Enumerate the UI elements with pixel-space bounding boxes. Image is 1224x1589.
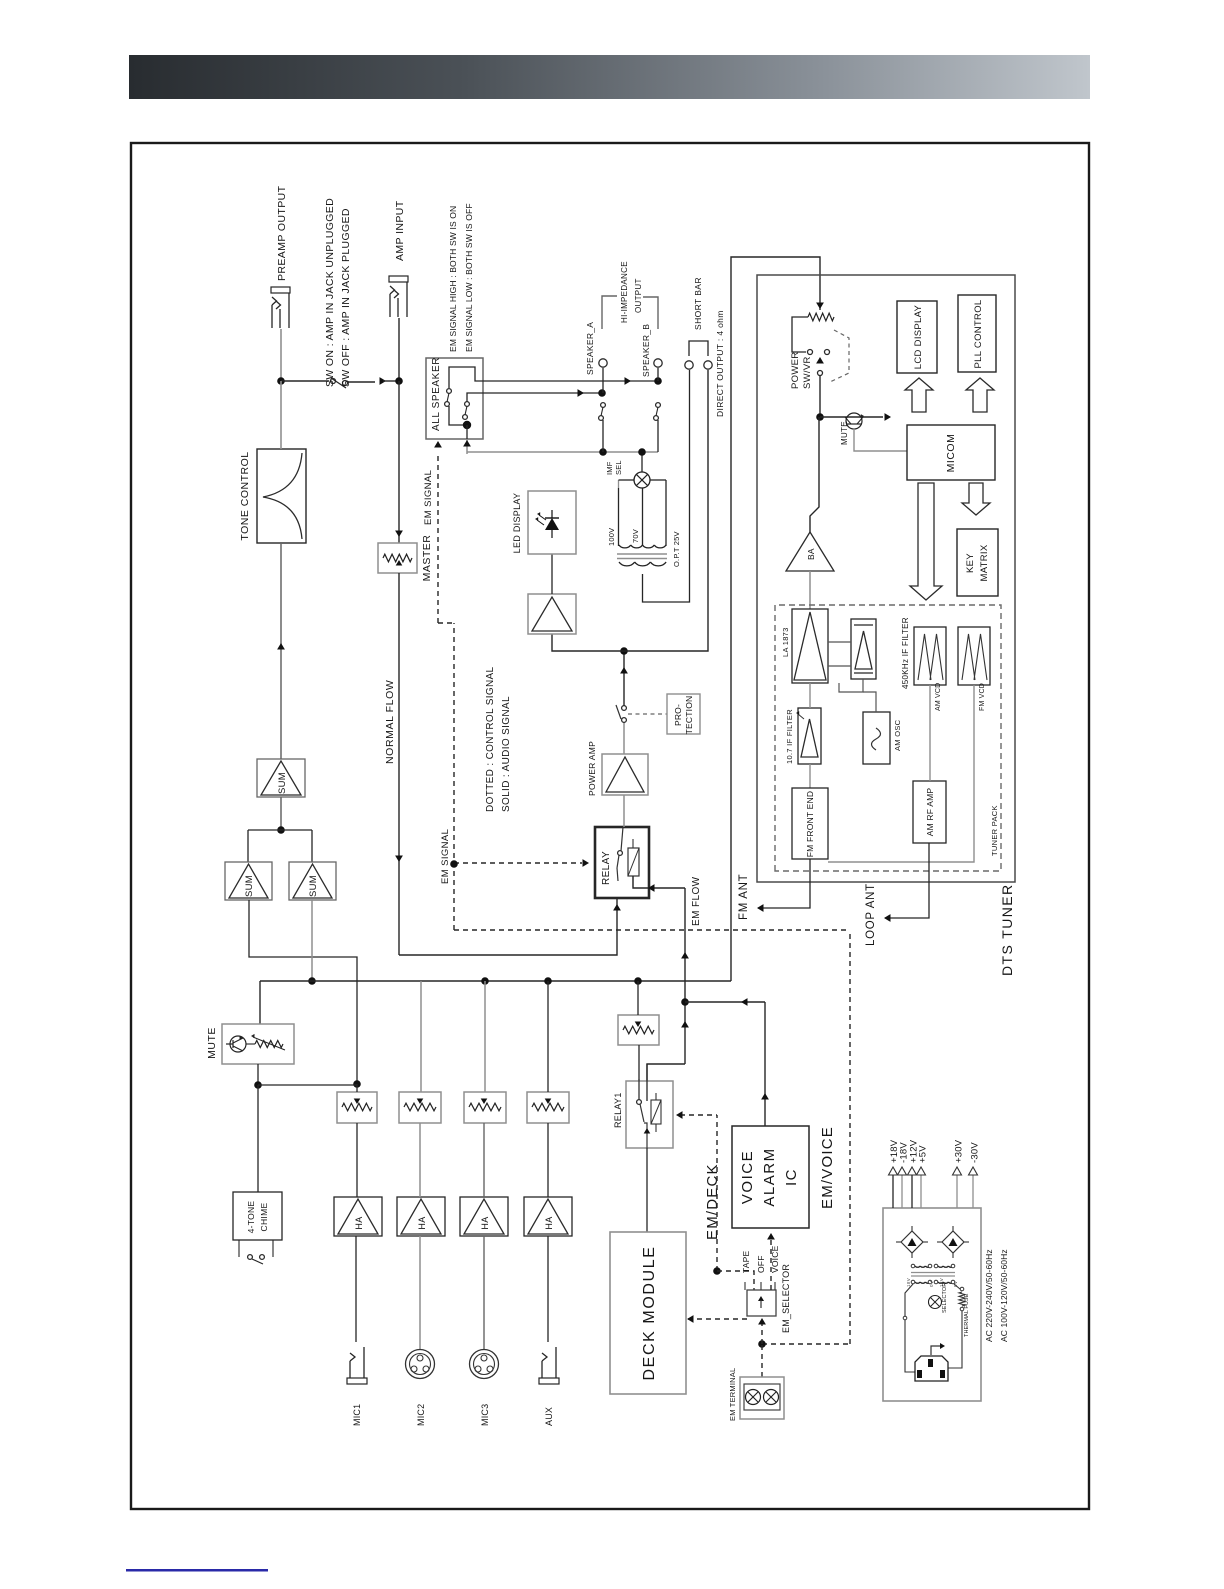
selector lamp [929,1296,942,1309]
node mic1 junction [353,1080,361,1088]
wire relay-poweramp [623,795,625,827]
svg-text:ALARM: ALARM [761,1147,778,1206]
LA-filter links [828,665,851,667]
svg-text:MIC2: MIC2 [416,1404,426,1426]
node bus sum3 [308,977,316,985]
wire SUM3 from bus [311,900,313,981]
XLR MIC2 [406,1350,435,1379]
jack J2 AMP INPUT [389,294,391,317]
wire to MASTER [398,381,400,543]
svg-text:PRO-: PRO- [673,704,683,726]
jack AUX [541,1361,543,1378]
svg-text:PLL CONTROL: PLL CONTROL [973,300,984,369]
KEY MATRIX box [957,529,998,596]
node dashed selector [713,1267,721,1275]
wire mute out [257,1064,259,1085]
bus node pot5 [634,977,642,985]
DECK MODULE box [610,1232,686,1394]
SUM3 box [289,862,336,900]
VOICE ALARM IC box [732,1126,809,1228]
svg-text:EM/VOICE: EM/VOICE [819,1126,836,1209]
svg-text:RELAY: RELAY [601,851,612,885]
POWER AMP box [602,754,648,795]
svg-text:100V: 100V [607,528,616,546]
svg-text:SHORT BAR: SHORT BAR [693,277,703,330]
wire HA2-pot2 [419,1123,421,1197]
ALL SPEAKER box [426,358,483,439]
protection switch [622,718,627,723]
psu wiring right [948,1311,962,1368]
OPT core [617,558,667,560]
svg-text:SUM: SUM [308,875,319,897]
psu out +18V [892,1175,894,1208]
svg-text:FM ANT: FM ANT [738,874,750,920]
FM VCD box [958,627,990,685]
relay1 feed inside [638,1079,640,1100]
wire SUM1-tone [280,543,282,759]
filter-osc link [839,679,863,692]
svg-text:MIC1: MIC1 [352,1404,362,1426]
arrow to tone [277,643,285,650]
POWER SUPPLY box [883,1208,981,1401]
svg-text:AC 220V-240V/50-60Hz: AC 220V-240V/50-60Hz [984,1249,994,1342]
svg-text:70V: 70V [631,529,640,543]
svg-text:MICOM: MICOM [945,434,957,473]
svg-text:SPEAKER_B: SPEAKER_B [641,324,651,377]
svg-text:SW ON : AMP IN JACK UNPLUGGED: SW ON : AMP IN JACK UNPLUGGED [324,198,336,387]
svg-text:HA: HA [544,1216,554,1229]
svg-text:VOICE: VOICE [739,1150,756,1204]
bridge rectifier 2 [942,1231,964,1253]
volume pot VR1 [337,1092,377,1123]
LA 1873 box [792,609,828,683]
bridge rectifier 1 [901,1231,923,1253]
psu transformer primary [915,1282,920,1283]
node return-IMF [638,448,646,456]
TONE CONTROL box [257,449,306,543]
svg-text:TAPE: TAPE [741,1250,751,1273]
svg-text:IC: IC [783,1168,800,1186]
svg-text:HA: HA [480,1216,490,1229]
svg-text:TUNER PACK: TUNER PACK [990,805,999,856]
wire pot4-bus [547,981,549,1092]
wire preamp jack lead [280,329,282,381]
svg-text:RELAY1: RELAY1 [613,1092,623,1128]
dashed protection link [628,713,667,715]
svg-text:SUM: SUM [244,875,255,897]
psu out -30V [972,1175,974,1208]
dashed pot-switch linkage [830,330,849,382]
selector ticks [744,1282,746,1290]
svg-text:OFF: OFF [756,1255,766,1273]
svg-text:PREAMP OUTPUT: PREAMP OUTPUT [276,185,288,281]
svg-text:FM FRONT END: FM FRONT END [805,791,815,857]
wire empot-relay1 [638,1045,640,1081]
em flow to relay coil [633,876,685,888]
jack MIC1 [349,1361,351,1378]
volume pot VR2 [399,1092,441,1123]
wire fmvcd-down [828,685,974,862]
jack J1 PREAMP OUTPUT [271,305,273,328]
FM ANT line [758,859,810,908]
wire HA1-pot1 [356,1123,358,1197]
svg-text:AUX: AUX [544,1407,554,1426]
svg-text:KEY: KEY [965,553,976,573]
arrow into relay [613,904,621,911]
70V tap [642,488,644,546]
wire relay1-deck [646,1148,648,1232]
svg-text:+5V: +5V [918,1145,929,1163]
wire pot1-junction [356,1084,358,1092]
node spkB [654,377,662,385]
XLR MIC3 [470,1350,499,1379]
LED driver box [528,594,576,634]
hi-impedance bracket B [643,297,658,329]
speaker return line [467,451,658,453]
EM FLOW line [684,888,686,1064]
short bar bracket [689,341,708,356]
plug arrow [931,1346,940,1355]
dashed into relay1 [680,1114,717,1116]
wire HA4-pot4 [547,1123,549,1197]
svg-text:LED DISPLAY: LED DISPLAY [512,493,522,554]
power switch [808,350,813,355]
svg-text:0V: 0V [929,1281,934,1287]
svg-text:POWER AMP: POWER AMP [587,741,597,796]
node allspeaker common [463,421,471,429]
svg-text:AM OSC: AM OSC [893,719,902,751]
wire switch-ampjack [398,318,400,381]
POWER SW/VR pot [808,313,834,321]
tuner mute transistor [820,416,883,418]
svg-text:AC 100V-120V/50-60Hz: AC 100V-120V/50-60Hz [999,1249,1009,1342]
HA2 box [397,1197,445,1236]
svg-text:MATRIX: MATRIX [979,544,990,581]
relay coil leads [632,876,634,887]
HA1 box [334,1197,382,1236]
wire lamp-return [641,452,643,472]
EM TERMINAL box [740,1377,784,1419]
RELAY box [595,827,649,898]
wire MIC3-HA3 [483,1236,485,1350]
svg-text:DIRECT OUTPUT : 4 ohm: DIRECT OUTPUT : 4 ohm [715,310,725,417]
svg-text:AMP INPUT: AMP INPUT [394,200,406,261]
dashed em trunk [454,929,850,931]
SUM2 box [225,862,272,900]
svg-text:CHIME: CHIME [259,1203,269,1232]
svg-text:EM/DECK: EM/DECK [704,1163,721,1240]
svg-text:OUTPUT: OUTPUT [634,278,643,313]
SHORT BAR terminals [685,361,693,369]
svg-text:SEL: SEL [614,460,623,475]
HA4 box [524,1197,572,1236]
OPT primary coil [619,545,631,548]
block arrow micom-lcd [905,378,933,412]
sum split branches [248,829,312,831]
psu out +5V [920,1175,922,1208]
svg-text:EM SIGNAL: EM SIGNAL [440,829,451,884]
relay1 NC wire [646,1064,648,1101]
svg-text:LCD DISPLAY: LCD DISPLAY [913,304,924,369]
wire junction to led driver [552,634,624,651]
svg-text:EM SIGNAL LOW : BOTH SW IS OFF: EM SIGNAL LOW : BOTH SW IS OFF [464,203,474,352]
arrow into MASTER [395,531,403,538]
HA3 box [460,1197,508,1236]
PRO-TECTION box [667,694,700,734]
RELAY1 box [626,1081,673,1148]
bus corner to mute [259,981,261,1024]
MUTE box [222,1024,294,1064]
dashed relay1-selector [716,1115,718,1271]
footer blue line [126,1569,268,1572]
block arrow micom-key [962,483,990,515]
wire to output junction [623,651,625,706]
spkB switch [656,403,661,408]
psu wiring left [905,1284,913,1316]
volume pot VR3 [464,1092,506,1123]
node mute out [254,1081,262,1089]
wire MIC1-HA1 [355,1236,357,1342]
4-TONE CHIME box [233,1192,282,1240]
svg-text:MIC3: MIC3 [480,1404,490,1426]
svg-text:SELECTOR: SELECTOR [942,1283,948,1313]
svg-text:BA: BA [806,548,816,560]
svg-text:FM VCD: FM VCD [979,683,986,711]
svg-text:DTS TUNER: DTS TUNER [999,884,1015,976]
thermal fuse [959,1292,965,1306]
node preamp junction [277,377,285,385]
PLL CONTROL box [958,295,996,372]
wire junction-switch [281,380,329,382]
svg-text:10.7 IF FILTER: 10.7 IF FILTER [785,709,794,764]
wire master-normalflow [398,573,400,955]
chime switch [238,1240,240,1257]
wire SUM1 in [280,797,282,830]
EM_SELECTOR box [747,1290,776,1316]
wire amvcd-amrf [929,685,931,781]
svg-text:TECTION: TECTION [684,696,694,735]
svg-text:ALL SPEAKER: ALL SPEAKER [431,357,442,431]
mute pot [255,1041,283,1048]
wire bus-empot [637,981,639,1015]
svg-text:LA 1873: LA 1873 [781,627,790,657]
svg-text:EM SIGNAL: EM SIGNAL [423,470,434,525]
node sum split [277,826,285,834]
wire LA-10.7 [809,683,811,708]
svg-text:POWER: POWER [790,352,801,389]
LED DISPLAY box [528,491,576,554]
switch amp-in detect [331,379,336,384]
dashed em into allspeaker [437,453,439,623]
LOOP ANT line [885,843,929,918]
TUNER PACK dashed box [775,605,1001,871]
svg-text:MUTE: MUTE [840,421,849,445]
SPEAKER_A terminal [599,359,607,367]
OPT secondary coil [619,562,635,566]
EM level pot box [618,1015,659,1045]
speaker B line [483,380,658,382]
svg-text:SPEAKER_A: SPEAKER_A [585,322,595,375]
node poweramp out [620,647,628,655]
wire BA-mutejunction [810,417,819,532]
node em flow [681,998,689,1006]
mute transistor [230,1036,246,1052]
svg-text:EM SIGNAL HIGH : BOTH SW IS ON: EM SIGNAL HIGH : BOTH SW IS ON [448,206,458,352]
AC plug [915,1356,948,1381]
OPT tap rectangle [618,488,620,546]
svg-text:4-TONE: 4-TONE [246,1201,256,1234]
svg-text:SOLID : AUDIO SIGNAL: SOLID : AUDIO SIGNAL [501,696,512,812]
psu transformer secondary [915,1266,920,1267]
wire common to return [466,439,468,454]
svg-text:HA: HA [354,1216,364,1229]
wire HA3-pot3 [483,1123,485,1197]
bus node pot3 [481,977,489,985]
allspeaker sw2 [465,402,470,407]
wire 10.7-fmfe [809,764,811,788]
MASTER pot box [378,543,417,573]
psu transformer core [911,1275,955,1277]
AM RF AMP box [913,781,946,843]
wire driver-led [551,554,553,594]
450KHz IF FILTER box [851,619,876,679]
DTS TUNER enclosure [757,275,1015,882]
allspeaker sw1 [447,389,452,394]
main bus [260,980,731,982]
node return-A [599,448,607,456]
svg-text:18V: 18V [906,1278,911,1287]
svg-text:EM_SELECTOR: EM_SELECTOR [781,1264,791,1333]
dashed voice-valarm [770,1239,772,1290]
wire LA-BA [809,571,811,609]
frame border [131,143,1089,1509]
svg-text:LOOP ANT: LOOP ANT [865,883,877,946]
MICOM box [907,425,995,480]
wire pot3-bus [484,981,486,1092]
svg-text:-30V: -30V [970,1142,981,1163]
svg-text:SW/VR: SW/VR [802,356,813,389]
BA amp triangle [786,532,834,571]
svg-text:DECK MODULE: DECK MODULE [641,1246,658,1381]
AM VCD box [914,627,946,685]
node dashed branch [450,860,458,868]
psu out +30V [956,1175,958,1208]
svg-text:TONE CONTROL: TONE CONTROL [239,451,251,540]
wire pot2-bus [420,981,422,1092]
em flow to relay1 [647,1064,685,1101]
svg-text:450KHz IF FILTER: 450KHz IF FILTER [901,617,910,689]
led symbol [545,518,559,530]
FM FRONT END box [792,788,828,859]
dashed tape-deck [688,1318,747,1320]
svg-text:EM FLOW: EM FLOW [691,876,702,926]
wire down to relay [399,898,617,955]
psu out -18V [901,1175,903,1208]
svg-text:AM VCD: AM VCD [935,683,942,711]
svg-text:IMF: IMF [605,461,614,475]
wire voicealarm-emflow [685,1001,765,1003]
block arrow micom-tunerpack [910,483,942,600]
SPEAKER_B terminal [654,359,662,367]
node dashed em terminal [758,1340,766,1348]
SUM1 box [257,759,305,797]
wire AUX-HA4 [547,1236,549,1342]
svg-text:AM RF AMP: AM RF AMP [925,788,935,837]
bus node pot4 [544,977,552,985]
svg-text:MASTER: MASTER [421,535,433,582]
svg-text:SUM: SUM [277,772,288,794]
relay coil [628,848,639,876]
AM OSC box [863,712,890,764]
svg-text:NORMAL FLOW: NORMAL FLOW [384,680,396,764]
svg-text:HI-IMPEDANCE: HI-IMPEDANCE [620,261,629,323]
wire tone-junction [280,381,282,449]
volume pot VR4 [527,1092,569,1123]
bus riser to power pot [731,257,820,981]
arrow into amp input line [380,377,387,385]
node spkA [598,389,606,397]
svg-text:+30V: +30V [954,1139,965,1163]
IMF SEL lamp [634,472,650,488]
svg-text:SW OFF : AMP IN JACK PLUGGED: SW OFF : AMP IN JACK PLUGGED [340,208,352,387]
relay1 coil [651,1100,661,1124]
psu out +12V [911,1175,913,1208]
svg-text:O.P.T 25V: O.P.T 25V [672,531,681,567]
dashed em into relay [454,862,582,864]
spkA switch [601,403,606,408]
svg-text:HA: HA [417,1216,427,1229]
svg-text:THERMAL FUSE: THERMAL FUSE [964,1293,970,1337]
allspeaker inner path [449,367,483,388]
opt secondary tap to short bar [643,370,690,602]
speaker A line [483,392,602,394]
wire MIC2-HA2 [419,1236,421,1350]
relay switch [618,851,623,856]
rotated diagram group [206,185,1015,1426]
svg-text:EM TERMINAL: EM TERMINAL [728,1368,737,1421]
node mute junction [816,413,824,421]
10.7 IF FILTER box [798,708,821,764]
svg-text:MUTE: MUTE [206,1027,218,1059]
hi-impedance bracket A [602,296,617,329]
block arrow micom-pll [966,378,994,412]
wire mute-chime [257,1085,259,1192]
wire SUM2 input from mic1 channel [249,900,357,1084]
wire mute-micom [854,428,907,451]
relay1 NO contact [637,1100,642,1105]
node amp input junction [395,377,403,385]
arrow normal flow [395,856,403,863]
wire mute-mic1ch [258,1084,357,1086]
direct output riser [624,370,708,651]
wire poweramp out [623,722,625,754]
LCD DISPLAY box [897,301,937,373]
svg-text:DOTTED : CONTROL SIGNAL: DOTTED : CONTROL SIGNAL [485,666,496,812]
